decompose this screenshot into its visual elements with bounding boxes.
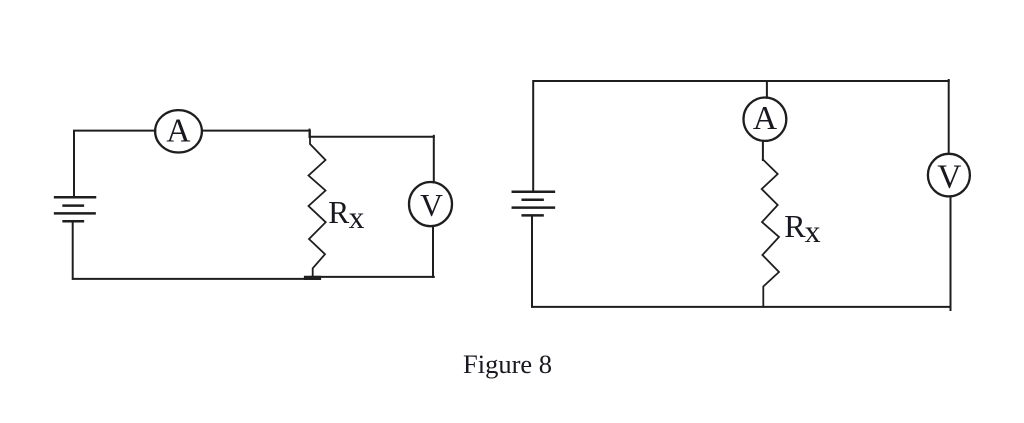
wire: left circuit, upper wire from resistor node to voltmeter branch corner <box>310 136 434 138</box>
resistor Rx (right circuit) zigzag <box>762 160 779 307</box>
ammeter A (right circuit) <box>744 98 787 141</box>
wire: left circuit, below voltmeter down to bottom wire <box>432 226 434 277</box>
battery (right circuit) <box>513 192 554 216</box>
wire: right circuit, below voltmeter down to bottom wire <box>950 196 952 310</box>
wire: right circuit, ammeter to resistor top <box>762 141 764 160</box>
voltmeter V (right circuit) <box>928 154 970 197</box>
wire: right circuit, bottom wire <box>533 306 949 308</box>
ammeter A (left circuit) <box>155 110 202 152</box>
wire: step-down jog at resistor top node <box>309 130 311 137</box>
svg-text:R: R <box>328 195 349 230</box>
wire: right circuit, top wire <box>533 81 949 192</box>
svg-text:V: V <box>420 188 443 223</box>
wire: right circuit, right branch from top corner down to voltmeter <box>948 80 950 154</box>
wire: left circuit, battery negative down to bottom wire <box>72 221 74 279</box>
battery (left circuit) <box>55 197 95 221</box>
wire: left circuit, ammeter to step corner <box>202 130 310 132</box>
svg-text:R: R <box>784 208 806 244</box>
svg-text:x: x <box>349 200 365 235</box>
wire: left circuit, bottom right segment (voltmeter to resistor node) <box>311 276 434 278</box>
svg-text:Figure 8: Figure 8 <box>463 349 552 379</box>
junction blob at left circuit bottom resistor node <box>306 276 319 280</box>
resistor Rx (left circuit) zigzag <box>309 131 326 279</box>
wire: left circuit, bottom left segment (resistor node to battery) <box>74 278 316 280</box>
wire: right circuit, battery negative down to bottom wire <box>531 215 533 307</box>
svg-text:x: x <box>805 213 821 249</box>
svg-text:V: V <box>937 159 961 196</box>
svg-text:A: A <box>753 100 777 137</box>
wire: left circuit, battery positive up and top wire to ammeter <box>74 131 155 198</box>
wire: right circuit, middle branch from top wire to ammeter <box>766 81 768 98</box>
wire: left circuit, right branch down to voltmeter <box>433 136 435 183</box>
svg-text:A: A <box>166 112 190 149</box>
voltmeter V (left circuit) <box>409 182 452 226</box>
